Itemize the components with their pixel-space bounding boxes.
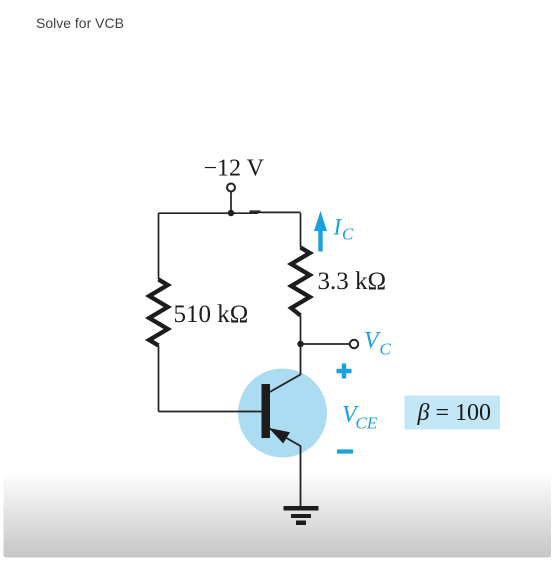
terminal VC bbox=[350, 340, 358, 348]
wire top horizontal right segment bbox=[258, 211, 301, 213]
wire supply stub bbox=[230, 192, 232, 214]
svg-text:C: C bbox=[342, 225, 354, 244]
beta box bbox=[405, 396, 501, 430]
svg-text:C: C bbox=[380, 340, 392, 359]
wire left branch upper bbox=[158, 213, 160, 280]
wire node to VC terminal bbox=[301, 343, 350, 345]
svg-text:CE: CE bbox=[356, 414, 378, 433]
svg-text:−12 V: −12 V bbox=[204, 156, 265, 182]
svg-text:β = 100: β = 100 bbox=[417, 400, 492, 426]
svg-text:V: V bbox=[364, 328, 381, 354]
node supply junction bbox=[228, 210, 234, 216]
current arrow IC bbox=[314, 211, 327, 252]
label VC bbox=[364, 328, 392, 359]
svg-text:510 kΩ: 510 kΩ bbox=[174, 301, 249, 328]
resistor 3.3 kOhm bbox=[291, 248, 310, 316]
svg-text:I: I bbox=[333, 215, 343, 240]
wire collector resistor to node bbox=[300, 316, 302, 345]
wire right branch upper bbox=[300, 213, 302, 248]
ground bbox=[284, 506, 319, 525]
svg-text:3.3 kΩ: 3.3 kΩ bbox=[318, 268, 387, 295]
label minus bbox=[337, 449, 353, 453]
label IC bbox=[333, 215, 355, 244]
transistor Q1 bbox=[262, 344, 301, 506]
node collector bbox=[297, 341, 303, 347]
supply terminal bbox=[227, 184, 235, 192]
wire top horizontal left segment bbox=[159, 212, 259, 214]
resistor 510 kOhm bbox=[149, 280, 168, 346]
label VCE bbox=[342, 402, 378, 433]
transistor Q1 highlight circle bbox=[238, 369, 327, 458]
wire base horizontal bbox=[159, 411, 263, 413]
svg-text:Solve for VCB: Solve for VCB bbox=[36, 15, 124, 31]
wire left branch lower bbox=[158, 346, 160, 412]
wire joint blob bbox=[250, 210, 261, 213]
label plus bbox=[337, 364, 352, 379]
